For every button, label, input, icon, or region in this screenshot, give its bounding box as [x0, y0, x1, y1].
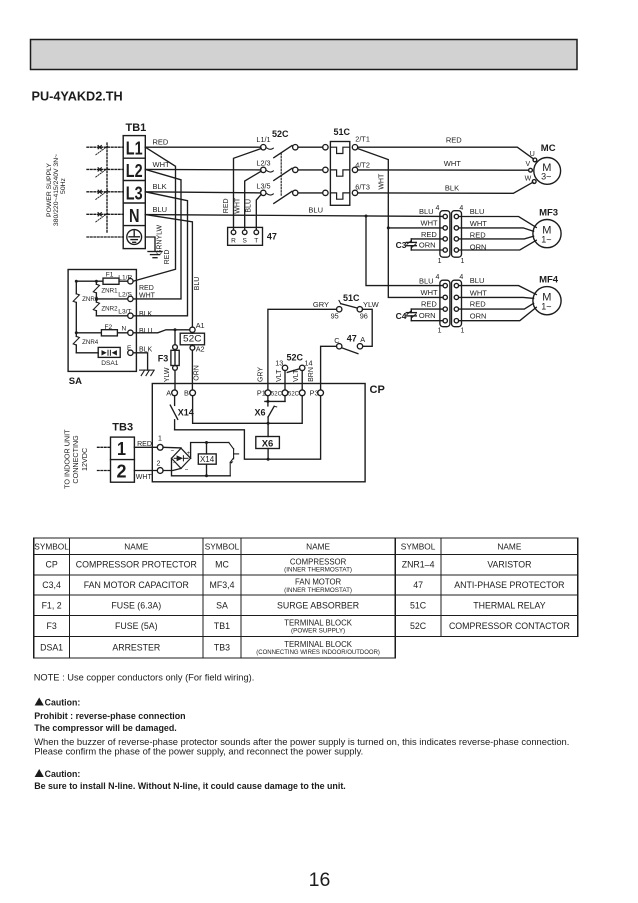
labels R S T — [231, 237, 258, 244]
MF4 right labels — [470, 276, 487, 321]
svg-text:NAME: NAME — [306, 541, 330, 551]
svg-text:TB3: TB3 — [112, 422, 133, 434]
svg-text:ORN: ORN — [419, 311, 436, 320]
label 13 — [275, 359, 283, 368]
bridge plus rail — [191, 443, 229, 459]
svg-text:COMPRESSOR: COMPRESSOR — [290, 557, 347, 566]
svg-text:BLK: BLK — [139, 311, 153, 318]
svg-text:52C: 52C — [288, 392, 300, 398]
svg-text:A: A — [166, 389, 171, 398]
svg-text:BLU: BLU — [194, 277, 201, 291]
svg-text:4: 4 — [436, 205, 440, 212]
label F3 — [158, 353, 169, 363]
svg-text:2: 2 — [117, 461, 127, 482]
wire WHT tap to 47 S — [245, 171, 262, 230]
wire X14 to bottom rail — [175, 396, 321, 460]
svg-text:WHT: WHT — [470, 288, 487, 297]
svg-text:!: ! — [38, 771, 40, 778]
svg-text:96: 96 — [360, 312, 368, 321]
label 2 — [157, 460, 161, 467]
svg-text:YLW: YLW — [164, 367, 171, 382]
breaker contact marks — [98, 146, 101, 216]
svg-text:Prohibit : reverse-phase conne: Prohibit : reverse-phase connection — [34, 711, 185, 721]
svg-text:BLU: BLU — [470, 276, 485, 285]
svg-text:VLT: VLT — [293, 369, 300, 382]
label WHT — [153, 160, 170, 169]
TB1 earth terminal symbol — [127, 230, 142, 245]
51C aux contact 95-96 — [337, 301, 363, 312]
wire BRN C to P3 — [321, 346, 337, 390]
relay coil X14 — [198, 443, 216, 476]
svg-text:P1: P1 — [257, 389, 266, 398]
svg-text:Be sure to install N-line. Wit: Be sure to install N-line. Without N-lin… — [34, 781, 346, 791]
label L2/3 — [256, 159, 270, 168]
surge absorber SA box — [68, 270, 136, 372]
svg-text:ARRESTER: ARRESTER — [112, 642, 160, 652]
svg-text:E: E — [127, 345, 132, 352]
label ZNR4 — [82, 339, 99, 346]
label C3 — [396, 240, 407, 250]
svg-text:RED: RED — [470, 300, 486, 309]
label C — [334, 336, 339, 345]
svg-text:MF4: MF4 — [539, 275, 559, 286]
bridge polarity marks — [171, 449, 191, 474]
caution 1 line 2 — [34, 723, 177, 733]
svg-text:T: T — [254, 237, 258, 244]
svg-text:C: C — [334, 336, 339, 345]
terminal block TB1 — [123, 136, 145, 249]
svg-text:MC: MC — [215, 560, 229, 570]
svg-text:SA: SA — [216, 600, 228, 610]
wire 1 to bridge — [163, 446, 181, 449]
label N — [122, 326, 127, 333]
wire GRY 95 to P1 — [268, 309, 337, 390]
svg-text:L1/R: L1/R — [118, 274, 132, 281]
svg-text:BLU: BLU — [153, 205, 168, 214]
label MC — [541, 143, 556, 154]
wire TB3-1 RED — [134, 446, 157, 448]
CP terminal P1 — [265, 390, 271, 396]
SA terminal L1/R — [128, 279, 133, 284]
MF3 right labels — [470, 207, 487, 252]
svg-text:Caution:: Caution: — [45, 769, 81, 779]
label 52C coil — [183, 334, 202, 344]
svg-text:A1: A1 — [196, 321, 205, 330]
svg-text:12VDC: 12VDC — [80, 448, 89, 471]
label BLU vertical 47 — [245, 199, 252, 213]
junction dot WHT MF3 — [387, 226, 390, 229]
junction dots CP — [266, 400, 269, 461]
svg-text:(INNER THERMOSTAT): (INNER THERMOSTAT) — [284, 587, 352, 594]
52C contactor coil — [180, 327, 204, 390]
svg-text:TB1: TB1 — [126, 122, 147, 134]
bridge minus rail — [172, 458, 231, 476]
label 51C aux — [343, 293, 360, 303]
MC motor text — [541, 162, 551, 182]
wire WHT 4/T2 to MC V — [358, 169, 529, 171]
svg-text:X14: X14 — [200, 455, 215, 464]
table row DSA1 — [40, 640, 380, 656]
CP terminal A — [172, 390, 178, 396]
svg-text:GRY: GRY — [313, 300, 329, 309]
svg-text:F1: F1 — [106, 271, 114, 278]
svg-text:BLU: BLU — [139, 328, 153, 335]
svg-text:YLW: YLW — [363, 300, 380, 309]
svg-text:MC: MC — [541, 143, 556, 154]
52C linkage dashed — [280, 154, 282, 197]
svg-text:RED: RED — [137, 441, 152, 448]
symbol table — [34, 538, 578, 658]
wire VLT 14 down — [301, 371, 303, 390]
svg-text:NAME: NAME — [124, 541, 148, 551]
label 52C b — [288, 392, 300, 398]
svg-text:TO INDOOR UNIT: TO INDOOR UNIT — [63, 429, 72, 489]
label A — [166, 389, 171, 398]
svg-text:SURGE ABSORBER: SURGE ABSORBER — [277, 600, 359, 610]
label MF3 — [539, 208, 558, 219]
svg-text:PU-4YAKD2.TH: PU-4YAKD2.TH — [32, 90, 123, 104]
svg-text:6/T3: 6/T3 — [355, 183, 370, 192]
svg-text:CP: CP — [370, 384, 385, 396]
label BRN vertical — [308, 367, 315, 382]
label P1 — [257, 389, 266, 398]
caution 2 line 1 — [34, 781, 346, 791]
label GRY vertical — [257, 367, 264, 382]
label F2 — [105, 324, 113, 331]
svg-text:BLU: BLU — [419, 276, 434, 285]
fuse F1 — [103, 278, 119, 284]
label 47 aux — [347, 334, 357, 344]
svg-text:V: V — [525, 161, 530, 168]
label WHT TB3 — [136, 474, 153, 481]
51C heater element 3 — [330, 193, 349, 199]
label YLW vertical — [164, 367, 171, 382]
svg-text:MF3: MF3 — [539, 208, 558, 219]
svg-text:P3: P3 — [310, 389, 319, 398]
label 96 — [360, 312, 368, 321]
svg-text:SA: SA — [69, 376, 82, 387]
svg-text:ZNR4: ZNR4 — [82, 339, 99, 346]
bridge rectifier diamond — [172, 448, 191, 468]
label 52C — [272, 129, 289, 139]
svg-text:X6: X6 — [262, 439, 274, 450]
svg-text:(INNER THERMOSTAT): (INNER THERMOSTAT) — [284, 567, 352, 574]
TB1 label — [126, 122, 147, 134]
svg-text:(CONNECTING WIRES INDOOR/OUT: (CONNECTING WIRES INDOOR/OUTDOOR) — [256, 650, 380, 656]
svg-text:ORN: ORN — [419, 240, 436, 249]
label B — [184, 389, 189, 398]
label L2/S — [118, 292, 132, 299]
svg-text:BLU: BLU — [470, 207, 485, 216]
wire L2 WHT to 52C — [145, 168, 260, 171]
label YLW — [363, 300, 380, 309]
label DSA1 — [101, 360, 119, 367]
label 6/T3 — [355, 183, 370, 192]
caution 2 warning triangle — [35, 769, 44, 778]
CP terminal P3 — [318, 390, 324, 396]
51C output terminals — [352, 145, 357, 196]
svg-text:F3: F3 — [46, 621, 56, 631]
transistor Q1 — [229, 443, 239, 476]
page number — [309, 869, 331, 891]
svg-text:L3/T: L3/T — [118, 309, 131, 316]
ground wire from TB1 earth — [145, 237, 155, 251]
svg-text:51C: 51C — [334, 127, 351, 137]
svg-text:~: ~ — [171, 449, 175, 455]
CP terminal 52C b — [299, 390, 305, 396]
label 14 — [304, 359, 312, 368]
svg-text:51C: 51C — [410, 600, 427, 610]
label BLK MC — [445, 183, 459, 192]
svg-text:F3: F3 — [158, 353, 169, 363]
caution 1 body line 2 — [34, 745, 363, 756]
note copper conductors — [34, 672, 255, 682]
svg-text:TB3: TB3 — [214, 642, 230, 652]
svg-text:L3: L3 — [126, 182, 143, 203]
svg-text:52C: 52C — [287, 352, 304, 362]
wire TB3-2 WHT — [134, 470, 157, 472]
svg-text:WHT: WHT — [234, 197, 241, 214]
svg-text:THERMAL RELAY: THERMAL RELAY — [473, 600, 545, 610]
label X6 contact — [255, 407, 266, 417]
wire L1/R row — [76, 280, 127, 282]
bridge diode symbol — [174, 455, 188, 461]
label X14 coil — [200, 455, 215, 464]
svg-text:B: B — [184, 389, 189, 398]
svg-text:ANTI-PHASE PROTECTOR: ANTI-PHASE PROTECTOR — [454, 580, 564, 590]
wire BLU branch to MF4 — [366, 216, 443, 286]
svg-text:ZNR2: ZNR2 — [101, 306, 118, 313]
TB3 cell labels — [117, 438, 127, 482]
svg-text:4/T2: 4/T2 — [355, 160, 370, 169]
capacitor C4 — [406, 309, 416, 321]
svg-text:Caution:: Caution: — [45, 697, 81, 707]
earth ground symbol — [148, 252, 162, 258]
caution 2 heading — [45, 769, 81, 779]
svg-text:RED: RED — [164, 250, 171, 265]
MF3 right wires — [459, 217, 537, 251]
svg-text:3~: 3~ — [541, 172, 551, 182]
svg-text:WHT: WHT — [470, 219, 487, 228]
contact 47 C-A — [337, 344, 363, 354]
header bar — [31, 40, 578, 70]
label SA — [69, 376, 82, 387]
svg-text:2: 2 — [157, 460, 161, 467]
MF3 motor text — [541, 225, 551, 245]
GRNYLW label — [157, 225, 164, 256]
label RED vertical 47 — [223, 198, 230, 213]
caution 1 warning triangle — [35, 698, 44, 707]
svg-text:GRY: GRY — [257, 367, 264, 382]
CP terminal 52C a — [282, 390, 288, 396]
wire RED row MF3 — [411, 238, 443, 240]
label WHT vertical fan — [379, 173, 386, 190]
svg-text:4: 4 — [436, 274, 440, 281]
svg-text:ZNR1–4: ZNR1–4 — [402, 560, 435, 570]
52C aux contact 13-14 — [282, 365, 305, 372]
svg-text:RED: RED — [470, 231, 486, 240]
svg-text:BLU: BLU — [308, 206, 323, 215]
caution 1 heading — [45, 697, 81, 707]
label CP — [370, 384, 385, 396]
label P3 — [310, 389, 319, 398]
contact X6 — [265, 396, 285, 424]
wire 2 to bridge — [163, 468, 181, 470]
svg-text:FUSE (6.3A): FUSE (6.3A) — [111, 600, 161, 610]
junction dots SA — [75, 280, 98, 335]
svg-text:16: 16 — [309, 869, 331, 891]
svg-text:GRNYLW: GRNYLW — [157, 225, 164, 256]
wire N diagonal BLU to 52C coil A1 — [145, 215, 192, 327]
label RED — [153, 138, 169, 147]
svg-text:C3: C3 — [396, 240, 407, 250]
SA terminal N — [128, 330, 133, 335]
label A2 — [196, 345, 205, 354]
label L1/1 — [256, 135, 270, 144]
label C4 — [396, 311, 407, 321]
label WHT MC — [444, 159, 461, 168]
svg-text:SYMBOL: SYMBOL — [34, 541, 69, 551]
wire L1 diagonal to SA feed — [133, 147, 175, 281]
label 52C a — [271, 392, 283, 398]
wire WHT branch to MF3 — [388, 227, 443, 229]
label ZNR1 — [101, 288, 118, 295]
svg-text:DSA1: DSA1 — [101, 360, 119, 367]
motor MF3 — [533, 220, 561, 248]
label 47 — [267, 232, 277, 242]
relay coil X6 — [256, 423, 280, 459]
table row CP — [45, 557, 531, 573]
label A1 — [196, 321, 205, 330]
TB1 cell labels L1 L2 L3 N — [126, 138, 143, 226]
svg-text:14: 14 — [304, 359, 312, 368]
svg-text:COMPRESSOR PROTECTOR: COMPRESSOR PROTECTOR — [76, 560, 197, 570]
label RED MC — [446, 135, 462, 144]
svg-text:Please confirm the phase of th: Please confirm the phase of the power su… — [34, 745, 363, 756]
wire VLT 13 down — [284, 371, 286, 390]
wire BLK 6/T3 to MC W — [358, 182, 533, 193]
svg-text:CONNECTING: CONNECTING — [71, 435, 80, 484]
svg-text:X6: X6 — [255, 407, 266, 417]
svg-text:1: 1 — [461, 258, 465, 265]
svg-text:-: - — [173, 460, 175, 466]
svg-text:4: 4 — [459, 274, 463, 281]
labels U V W — [525, 151, 535, 182]
contactor 52C main contact L3/5 — [261, 190, 329, 203]
table row F12 — [42, 600, 546, 610]
label X14 contact — [178, 407, 194, 417]
thermal relay 51C box — [330, 142, 349, 206]
fuse F3 — [171, 330, 179, 390]
label 51C — [334, 127, 351, 137]
svg-text:N: N — [122, 326, 127, 333]
MF3 pin numbers — [436, 205, 465, 265]
svg-text:C3,4: C3,4 — [42, 580, 61, 590]
CP terminal 2 — [157, 468, 163, 474]
anti-phase protector 47 box — [228, 227, 263, 245]
MF3 left labels — [419, 207, 438, 249]
label BLU vertical — [194, 277, 201, 291]
MC terminals U V W — [529, 158, 537, 183]
wire BLU tap to 47 T — [256, 194, 261, 230]
svg-text:A2: A2 — [196, 345, 205, 354]
SA row labels — [139, 285, 156, 354]
capacitor C3 — [406, 239, 416, 250]
svg-text:TB1: TB1 — [214, 621, 230, 631]
label VLT vertical 1 — [276, 369, 283, 382]
CP terminal 1 — [157, 444, 163, 450]
wire L3 diagonal to SA feed — [133, 192, 187, 316]
svg-text:U: U — [530, 151, 535, 158]
svg-text:52C: 52C — [272, 129, 289, 139]
wire L3 BLK to 52C — [145, 192, 260, 193]
svg-text:NAME: NAME — [497, 541, 521, 551]
label F1 — [106, 271, 114, 278]
svg-text:1: 1 — [117, 438, 126, 459]
label BLU mid — [308, 206, 323, 215]
wire WHT fan feed from 2/T1 — [358, 149, 444, 298]
svg-text:RED: RED — [153, 138, 169, 147]
label BLU — [153, 205, 168, 214]
svg-text:WHT: WHT — [136, 474, 153, 481]
svg-text:FUSE (5A): FUSE (5A) — [115, 621, 158, 631]
svg-text:X14: X14 — [178, 407, 194, 417]
svg-text:CP: CP — [45, 560, 57, 570]
caution 1 body line 1 — [34, 736, 569, 747]
contact X14 — [170, 396, 177, 430]
label ZNR2 — [101, 306, 118, 313]
connector MF4 left block — [440, 280, 450, 327]
svg-text:DSA1: DSA1 — [40, 642, 63, 652]
svg-text:POWER SUPPLY: POWER SUPPLY — [46, 163, 53, 217]
svg-text:380/220~415/240V 3N~: 380/220~415/240V 3N~ — [53, 154, 60, 226]
svg-text:F1, 2: F1, 2 — [42, 600, 62, 610]
svg-text:1~: 1~ — [541, 235, 551, 245]
table header row — [34, 541, 522, 551]
power supply breaker dotted lines — [87, 143, 123, 237]
svg-text:50Hz: 50Hz — [60, 177, 67, 193]
svg-text:MF3,4: MF3,4 — [210, 580, 235, 590]
svg-text:4: 4 — [459, 205, 463, 212]
svg-text:BLU: BLU — [419, 207, 434, 216]
svg-text:SYMBOL: SYMBOL — [401, 541, 436, 551]
terminal block TB3 — [111, 437, 135, 482]
svg-text:R: R — [231, 237, 236, 244]
svg-text:TERMINAL BLOCK: TERMINAL BLOCK — [284, 640, 353, 649]
compressor protector CP box — [152, 384, 365, 482]
svg-text:1: 1 — [438, 328, 442, 335]
svg-text:ORN: ORN — [470, 312, 487, 321]
svg-text:L2/S: L2/S — [118, 292, 132, 299]
label 4/T2 — [355, 160, 370, 169]
svg-text:BLU: BLU — [245, 199, 252, 213]
svg-text:13: 13 — [275, 359, 283, 368]
svg-text:52C: 52C — [183, 334, 202, 344]
label A — [360, 335, 365, 344]
svg-text:FAN MOTOR CAPACITOR: FAN MOTOR CAPACITOR — [84, 580, 189, 590]
SA terminal E — [128, 350, 133, 355]
svg-text:RED: RED — [421, 230, 437, 239]
label X6 coil — [262, 439, 274, 450]
svg-text:95: 95 — [331, 312, 339, 321]
table row F3 — [46, 619, 569, 635]
label 2/T1 — [355, 135, 370, 144]
varistor ZNR3 — [73, 281, 79, 333]
wire RED row MF4 — [411, 308, 443, 310]
wire E to chassis ground — [133, 353, 148, 370]
svg-text:WHT: WHT — [139, 293, 156, 300]
svg-text:47: 47 — [413, 580, 423, 590]
